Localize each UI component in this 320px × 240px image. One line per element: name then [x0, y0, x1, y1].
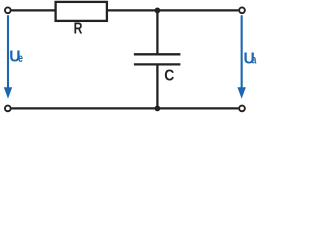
- svg-text:e: e: [18, 53, 23, 66]
- svg-text:a: a: [252, 54, 257, 67]
- svg-text:C: C: [164, 67, 174, 85]
- svg-text:R: R: [74, 19, 83, 37]
